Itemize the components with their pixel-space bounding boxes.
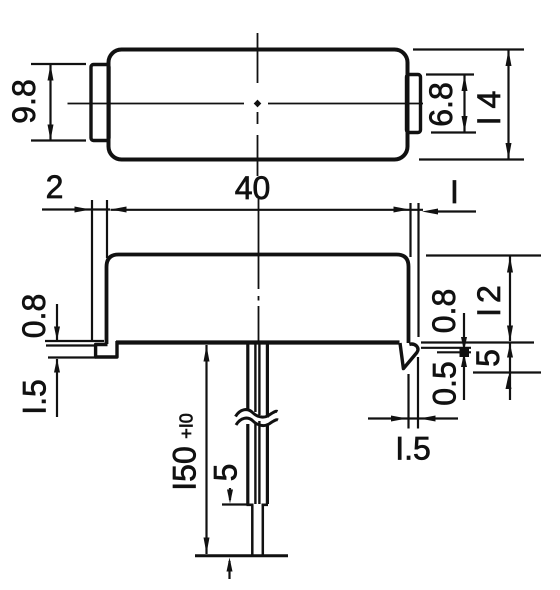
left end cap tab	[91, 65, 109, 141]
dim 14 line+arrows	[507, 50, 509, 159]
svg-text:0.5: 0.5	[427, 361, 463, 405]
dim 2 leader arrow	[42, 208, 110, 210]
svg-text:I.5: I.5	[395, 431, 431, 467]
svg-text:0.8: 0.8	[16, 294, 52, 338]
dim 9.8 extension lines	[31, 64, 86, 141]
small ext line y352.3	[437, 351, 471, 353]
dim 1.5 bottom right line	[368, 417, 458, 419]
thin wire lines	[252, 505, 262, 556]
svg-text:I: I	[450, 174, 459, 210]
ext line right x408.5 below tail	[407, 374, 409, 429]
left ext line y345.5	[46, 344, 96, 346]
dim 150 shaft	[205, 345, 207, 554]
dim 5 center extension	[222, 503, 248, 505]
svg-text:I.5: I.5	[17, 379, 53, 415]
lead inner line a	[254, 344, 256, 504]
extension line left x92	[91, 200, 93, 341]
break mark upper	[236, 410, 278, 417]
hat centerline	[258, 199, 260, 341]
long extension line y342 right	[421, 341, 534, 343]
dim 5 right bottom extension	[473, 371, 541, 373]
left foot fold	[96, 341, 117, 357]
lead end baseline	[195, 554, 288, 557]
vertical centerline top view	[257, 33, 259, 176]
lead inner line b	[258, 344, 260, 504]
small ext line y347.8	[421, 347, 471, 349]
dim 9.8 line+arrows	[49, 65, 51, 141]
dim 6.8 extension lines	[426, 75, 476, 133]
svg-text:2: 2	[46, 169, 64, 205]
svg-text:I50: I50	[167, 446, 203, 490]
svg-text:6.8: 6.8	[423, 82, 459, 126]
svg-text:I4: I4	[471, 83, 507, 126]
svg-text:9.8: 9.8	[6, 79, 42, 123]
svg-text:+I0: +I0	[177, 413, 197, 439]
left ext line y357.5	[48, 356, 96, 358]
hat bottom line	[116, 340, 400, 344]
svg-text:0.8: 0.8	[426, 289, 462, 333]
lead shoulders	[247, 503, 269, 506]
left ext line y341	[45, 340, 104, 342]
dim 5 right shaft	[509, 342, 511, 400]
svg-text:5: 5	[470, 349, 506, 367]
dim 12 line+arrows	[509, 256, 511, 341]
svg-text:5: 5	[208, 464, 244, 482]
dim 1.5 left shaft	[56, 359, 58, 417]
dim 0.8/0.5 right shaft	[463, 313, 465, 400]
svg-text:40: 40	[235, 170, 271, 206]
extension line right x410.5	[409, 203, 411, 257]
lead outer left line	[246, 344, 249, 504]
body outline top view	[109, 50, 408, 160]
horizontal centerline	[68, 103, 424, 105]
dim 14 extension lines	[413, 50, 524, 160]
dim 5 center top arrow	[229, 488, 231, 500]
svg-text:I2: I2	[471, 280, 507, 317]
center dot	[254, 100, 262, 108]
extension line left x107	[106, 200, 108, 258]
lead outer right line	[266, 344, 269, 504]
right end cap tab	[407, 75, 421, 133]
right pointed tail	[400, 343, 418, 369]
ext line right x418 below tail	[417, 357, 419, 429]
dim 40 line	[111, 209, 424, 211]
hat cover outline	[107, 255, 409, 345]
dim 6.8 line+arrows	[463, 75, 465, 132]
dim 1 leader arrow	[436, 210, 476, 212]
break mark lower	[236, 418, 278, 425]
dim 12 top extension	[426, 254, 541, 256]
right wall outer line	[417, 203, 419, 337]
dim 0.8 left shaft	[56, 304, 58, 340]
dim 5 center bottom arrow	[228, 561, 230, 579]
